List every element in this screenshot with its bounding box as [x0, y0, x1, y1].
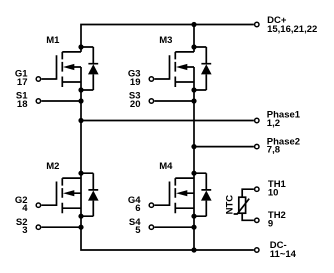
terminal DC+ [255, 22, 259, 26]
node: Phase1 tap on left leg [78, 118, 83, 123]
svg-text:6: 6 [135, 203, 140, 214]
node: M3 drain junction [191, 44, 196, 49]
svg-text:M2: M2 [46, 161, 59, 172]
label TH1 / pin 10 [268, 179, 287, 199]
svg-text:7,8: 7,8 [267, 145, 280, 156]
wire Phase1 line from left leg [81, 120, 254, 122]
wire right leg midpoint vertical down to DC- rail [193, 67, 195, 250]
body diode of M1 [81, 47, 99, 90]
node: M2 source / body-diode anode junction [78, 214, 83, 219]
node: M4 source / body-diode anode junction [191, 214, 196, 219]
svg-text:M4: M4 [159, 161, 173, 172]
mosfet M3 N-channel symbol [154, 52, 194, 87]
mosfet M1 N-channel symbol [41, 52, 81, 87]
wire source lead S1 [41, 100, 81, 102]
terminal S4 pin 5 [149, 225, 153, 229]
wire source lead S4 [154, 226, 194, 228]
svg-text:10: 10 [268, 188, 279, 199]
svg-text:19: 19 [130, 77, 141, 88]
mosfet M2 label [46, 161, 59, 172]
wire DC+ rail and left-leg drain drop [81, 25, 254, 52]
label S2 / pin 3 [16, 217, 28, 236]
node: M4 drain junction [191, 171, 196, 176]
terminal S1 pin 18 [36, 99, 40, 103]
node: M1 drain junction [78, 44, 83, 49]
wire Phase2 line from right leg [194, 146, 254, 148]
node: S1 junction [78, 98, 83, 103]
label S4 / pin 5 [129, 217, 141, 236]
terminal Phase1 [255, 118, 259, 122]
terminal G1 pin 17 [36, 77, 40, 81]
svg-text:5: 5 [135, 225, 141, 236]
svg-text:20: 20 [130, 99, 141, 110]
node: M2 drain junction [78, 171, 83, 176]
svg-text:3: 3 [22, 225, 27, 236]
terminal G2 pin 4 [36, 203, 40, 207]
label G4 / pin 6 [128, 195, 141, 214]
label G2 / pin 4 [15, 195, 28, 214]
svg-text:M3: M3 [159, 35, 172, 46]
node: right leg tap on DC- rail [191, 247, 196, 252]
label G3 / pin 19 [128, 69, 141, 88]
node: S3 junction [191, 98, 196, 103]
mosfet M2 N-channel symbol [41, 178, 81, 213]
terminal Phase2 [255, 144, 259, 148]
label DC+ / pins 15,16,21,22 [267, 15, 317, 35]
terminal DC- [255, 248, 259, 252]
label TH2 / pin 9 [268, 210, 286, 230]
node: Phase2 tap on right leg [191, 144, 196, 149]
wire left leg midpoint vertical down to DC- rail [81, 67, 254, 250]
wire TH1 lead [242, 189, 254, 197]
wire right-leg drain drop from DC+ rail [193, 25, 195, 52]
label G1 / pin 17 [15, 69, 28, 88]
svg-text:NTC: NTC [225, 195, 236, 215]
node: S4 junction [191, 225, 196, 230]
node: M1 source / body-diode anode junction [78, 87, 83, 92]
svg-text:18: 18 [17, 99, 28, 110]
terminal G4 pin 6 [149, 203, 153, 207]
label DC- / pins 11~14 [270, 240, 297, 260]
mosfet M3 label [159, 35, 172, 46]
wire TH2 lead [242, 213, 254, 220]
body diode of M3 [194, 47, 212, 90]
svg-text:4: 4 [22, 203, 28, 214]
label S1 / pin 18 [16, 91, 28, 110]
body diode of M4 [194, 173, 212, 216]
label Phase2 / pins 7,8 [267, 136, 300, 155]
terminal S2 pin 3 [36, 225, 40, 229]
node: M3 source / body-diode anode junction [191, 87, 196, 92]
thermistor NTC body [234, 197, 250, 214]
svg-text:17: 17 [17, 77, 28, 88]
wire source lead S2 [41, 226, 81, 228]
mosfet M4 label [159, 161, 173, 172]
svg-text:15,16,21,22: 15,16,21,22 [267, 24, 317, 35]
node: S2 junction [78, 225, 83, 230]
mosfet M1 label [46, 35, 60, 46]
wire source lead S3 [154, 100, 194, 102]
node: right leg tap on DC+ rail [191, 22, 196, 27]
label NTC [225, 195, 236, 215]
terminal TH1 pin 10 [255, 187, 259, 191]
svg-text:11~14: 11~14 [270, 249, 297, 260]
label S3 / pin 20 [129, 91, 141, 110]
body diode of M2 [81, 173, 99, 216]
terminal S3 pin 20 [149, 99, 153, 103]
svg-text:1,2: 1,2 [267, 118, 280, 129]
label Phase1 / pins 1,2 [267, 110, 301, 130]
mosfet M4 N-channel symbol [154, 178, 194, 213]
svg-text:M1: M1 [46, 35, 60, 46]
terminal G3 pin 19 [149, 77, 153, 81]
svg-text:9: 9 [268, 219, 273, 230]
terminal TH2 pin 9 [255, 218, 259, 222]
